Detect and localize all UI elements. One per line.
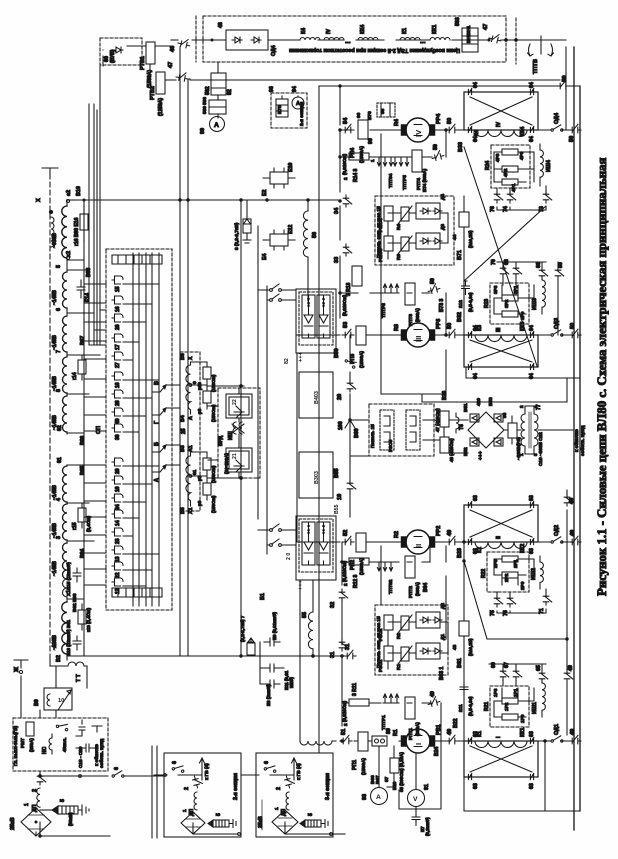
vertical feeder x180 (179, 47, 181, 656)
svg-text:IV: IV (326, 29, 332, 34)
РЗЮ4 (384, 206, 393, 221)
svg-text:61-1: 61-1 (306, 524, 311, 534)
svg-text:В51: В51 (463, 403, 468, 412)
arrester 5 (300, 820, 305, 827)
svg-text:64: 64 (529, 82, 535, 88)
svg-text:1: 1 (182, 809, 187, 812)
svg-text:34: 34 (334, 207, 340, 214)
voltmeter 91 (408, 790, 425, 807)
svg-text:К4: К4 (474, 130, 480, 136)
svg-text:47: 47 (483, 24, 489, 30)
winding 4-3 145В (63, 504, 68, 540)
wire R14 row (340, 156, 432, 158)
svg-text:16: 16 (115, 306, 121, 312)
svg-text:22: 22 (115, 572, 121, 578)
svg-text:ОД4: ОД4 (271, 45, 277, 56)
svg-text:8 (2,2-2,7кВ): 8 (2,2-2,7кВ) (234, 222, 239, 250)
resistor РП1 (358, 732, 368, 751)
panel wires (388, 213, 448, 259)
svg-text:(150Ом): (150Ом) (211, 465, 216, 483)
diode cell 62-1 (302, 295, 315, 338)
svg-text:+++: +++ (298, 579, 304, 590)
ammeter 93 (371, 788, 388, 805)
svg-text:52: 52 (343, 530, 349, 536)
svg-text:49: 49 (569, 498, 575, 504)
box В403 (299, 372, 333, 418)
winding ПРА upper (186, 365, 191, 410)
svg-text:В33: В33 (458, 142, 464, 152)
svg-text:В22: В22 (453, 718, 459, 728)
resistor р9 (203, 483, 211, 495)
terminal block 563 in top box (455, 17, 478, 52)
box 10 (ТРПШ) (34, 688, 72, 710)
svg-text:R23: R23 (484, 299, 490, 308)
svg-text:В52: В52 (463, 447, 468, 456)
svg-text:СП: СП (96, 426, 102, 434)
contact ОД2 (551, 537, 563, 543)
РПТ4 box (412, 150, 422, 172)
svg-text:Е4: Е4 (262, 254, 268, 260)
contact В56 below III (345, 356, 358, 369)
svg-text:собств. нужд: собств. нужд (579, 425, 585, 456)
component r13 (2,4Ом) (78, 610, 86, 624)
к ГВ arrow (200, 758, 205, 780)
winding x1-а1 ~638В (62, 602, 67, 654)
contact 34 (343, 195, 352, 207)
wire x545 to bottom edge (544, 741, 546, 811)
svg-text:~638В: ~638В (52, 233, 58, 248)
svg-text:2Р0: 2Р0 (520, 581, 525, 590)
ТПТР3 arrows (383, 284, 399, 293)
contact Г with arrow (152, 408, 166, 415)
diagonal equalizer B33 down-right (464, 147, 537, 366)
svg-text:В2: В2 (56, 655, 62, 662)
vertical x441 (440, 703, 442, 741)
svg-text:50: 50 (562, 75, 568, 82)
svg-text:РТВ2: РТВ2 (150, 86, 156, 100)
svg-text:32: 32 (330, 602, 336, 608)
svg-text:70: 70 (491, 259, 497, 265)
svg-text:20: 20 (115, 468, 121, 474)
R1 var resistor (401, 647, 409, 661)
svg-text:р10: р10 (197, 382, 202, 390)
wire МРТ right to sections (40, 775, 164, 777)
wire pantograph row (40, 822, 110, 836)
svg-text:С18 - С20: С18 - С20 (78, 746, 83, 768)
svg-text:В55: В55 (334, 468, 340, 478)
svg-text:Панель 15: Панель 15 (370, 424, 375, 448)
svg-text:R1: R1 (396, 664, 401, 670)
svg-text:563: 563 (455, 17, 461, 26)
antenna В60 106 (345, 414, 355, 432)
contact 47a (176, 71, 189, 82)
svg-text:II: II (414, 544, 423, 548)
svg-text:2: 2 (343, 723, 348, 726)
svg-text:R24: R24 (485, 161, 491, 170)
svg-text:53: 53 (343, 322, 349, 328)
svg-text:21: 21 (232, 453, 238, 459)
svg-text:50: 50 (433, 144, 439, 150)
secondary winding 55 (312, 580, 314, 612)
svg-text:(2,2-2,7кВ) 7: (2,2-2,7кВ) 7 (240, 615, 245, 642)
winding 01-4 145В (63, 466, 68, 502)
svg-text:РПТ4: РПТ4 (416, 178, 421, 190)
ammeter 99 (210, 117, 225, 132)
svg-text:43: 43 (452, 644, 457, 650)
wire motor III (297, 334, 569, 336)
svg-text:2-я секция: 2-я секция (233, 773, 239, 800)
dashed box БРД (218, 388, 260, 478)
component Е13 (12мкФ) (73, 636, 81, 650)
svg-text:III: III (414, 336, 423, 342)
svg-text:5: 5 (308, 813, 314, 816)
svg-text:96: 96 (356, 112, 361, 118)
component r16 В90 Е16 (80, 214, 88, 230)
svg-text:2: 2 (184, 787, 190, 790)
wire motor II (297, 541, 569, 543)
svg-text:R12 3: R12 3 (353, 574, 359, 588)
svg-text:(1500А): (1500А) (361, 758, 366, 775)
lower link box (387, 741, 441, 809)
svg-text:~145В: ~145В (52, 561, 58, 576)
svg-text:3 R11: 3 R11 (352, 683, 358, 696)
svg-text:63: 63 (529, 495, 535, 501)
coil Т6 (456, 413, 459, 433)
y656 bus contact 31a (344, 650, 356, 659)
svg-text:V: V (413, 796, 418, 803)
svg-text:IV: IV (496, 122, 502, 127)
svg-text:63: 63 (473, 783, 479, 789)
svg-text:ТПТ94: ТПТ94 (388, 173, 393, 188)
svg-text:Б5: Б5 (180, 507, 186, 514)
svg-text:66: 66 (536, 262, 542, 268)
РПТ3 box (405, 283, 415, 305)
coil group K4 in top box (300, 38, 320, 41)
svg-text:26: 26 (115, 324, 121, 330)
resistor R12 (349, 558, 369, 565)
wire motor I (332, 740, 569, 742)
svg-text:РР2: РР2 (436, 526, 442, 536)
svg-text:89: 89 (386, 728, 392, 734)
svg-text:ОД1: ОД1 (554, 724, 560, 735)
svg-text:(0,5-0,6с): (0,5-0,6с) (468, 292, 473, 312)
arrester 7 (2,2-2,7кВ) (240, 615, 255, 656)
svg-text:В71: В71 (457, 250, 463, 260)
coil group IV in top box (324, 38, 344, 41)
svg-text:3 R13: 3 R13 (346, 282, 352, 296)
wire from top box right to bus (501, 39, 566, 41)
svg-text:~145В: ~145В (52, 290, 58, 305)
svg-text:ТПТ92: ТПТ92 (388, 579, 393, 594)
coil ДП (286, 792, 289, 810)
tap 02 (67, 432, 84, 434)
svg-text:ИШ3: ИШ3 (532, 298, 538, 310)
svg-text:211: 211 (458, 704, 463, 712)
tap x1 (67, 598, 84, 600)
R2 var resistor (401, 616, 409, 630)
contact А with arrow (152, 465, 166, 472)
terminal Ж (14, 660, 28, 718)
contact 50 top right (557, 80, 569, 89)
svg-text:РЗО2: РЗО2 (378, 628, 383, 641)
resistor РП3 (356, 326, 366, 345)
svg-text:собств. нужд: собств. нужд (98, 739, 104, 768)
svg-text:6: 6 (172, 761, 178, 764)
dashed box: цепи возбуждения ТЭД 2-й секции (203, 16, 506, 62)
stepped return line III-IV (381, 378, 567, 402)
svg-text:2: 2 (276, 787, 282, 790)
terminal block 560 563 (209, 100, 226, 114)
svg-text:68: 68 (504, 259, 510, 265)
vertical feed x340 from bus (339, 86, 341, 335)
contact 2 (284, 775, 295, 789)
svg-text:R4: R4 (394, 119, 400, 126)
svg-text:Х1: Х1 (188, 508, 194, 514)
svg-text:В23: В23 (457, 548, 463, 558)
bottom contact row (112, 588, 162, 597)
svg-text:64: 64 (529, 136, 535, 142)
box В303 (299, 452, 333, 498)
dashed HV line (49, 174, 51, 660)
svg-text:30: 30 (115, 434, 121, 440)
svg-text:63: 63 (473, 495, 479, 501)
svg-text:95: 95 (380, 108, 385, 114)
svg-text:(0,5-0,6с): (0,5-0,6с) (468, 696, 473, 716)
capacitor Е7 (412, 817, 420, 826)
vertical feeder x258 (257, 226, 259, 519)
svg-text:I: I (496, 736, 502, 738)
dashed box ВУВ 60 (100, 38, 142, 65)
contact pair К upper (258, 284, 296, 301)
contact 46 left of top box (177, 37, 191, 48)
box 88 (Р3) (508, 423, 517, 438)
diode cell 61-1 (302, 522, 315, 565)
resistor R14 (0,918Ом) (349, 153, 369, 160)
wire top bus y86 (319, 85, 580, 87)
diode block V1 in top box (226, 30, 268, 50)
svg-text:РР4: РР4 (436, 114, 442, 124)
pantograph (181, 812, 205, 834)
svg-text:3-я секция: 3-я секция (325, 773, 331, 800)
capacitor box Е12 (262, 225, 295, 260)
svg-text:25: 25 (181, 428, 187, 434)
resistor РП4 (358, 120, 368, 139)
svg-text:2Р2: 2Р2 (504, 573, 509, 582)
svg-text:Е2: Е2 (262, 190, 268, 196)
vertical from II wire (429, 542, 431, 562)
tap 6 (67, 312, 94, 314)
svg-text:3Р1: 3Р1 (513, 285, 518, 294)
svg-text:ИШ1: ИШ1 (532, 702, 538, 714)
svg-text:3Р2: 3Р2 (504, 299, 509, 308)
svg-text:01: 01 (192, 469, 197, 475)
svg-text:49: 49 (447, 530, 453, 536)
svg-text:4Р0: 4Р0 (519, 151, 524, 160)
svg-text:К1: К1 (402, 28, 408, 34)
svg-text:40: 40 (115, 418, 121, 424)
taps upper ПРА (191, 362, 208, 414)
svg-text:5: 5 (60, 799, 66, 802)
svg-text:28: 28 (115, 400, 121, 406)
svg-text:63: 63 (529, 731, 535, 737)
svg-text:Е3 (1мкФ): Е3 (1мкФ) (266, 684, 271, 706)
component r15 (2,4Ом) (78, 508, 86, 522)
svg-text:к ГВ (4): к ГВ (4) (296, 763, 301, 780)
svg-text:Д1: Д1 (440, 634, 445, 640)
svg-text:РЗО1: РЗО1 (378, 659, 383, 672)
contact 49 on x567 line (564, 494, 573, 506)
svg-text:25кВ: 25кВ (258, 816, 264, 828)
resistor р7 (203, 458, 211, 470)
svg-text:54: 54 (343, 117, 349, 124)
pantograph (272, 810, 298, 834)
coil ИШ3 (542, 280, 545, 307)
component Е14 capacitor (77, 280, 85, 298)
top tie line of bank I (489, 663, 546, 665)
winding IV in X-box (475, 130, 527, 137)
block 562 (ВН contacts) (205, 73, 233, 95)
vertical x350 down from III wire (349, 335, 351, 420)
vertical feeder x188 (187, 80, 189, 656)
svg-text:К1: К1 (477, 731, 483, 737)
svg-text:(150Ом): (150Ом) (211, 404, 216, 422)
В71 vertical line (463, 196, 465, 335)
svg-text:67: 67 (504, 662, 510, 668)
svg-text:r16 В90 Е16: r16 В90 Е16 (74, 217, 80, 246)
svg-text:IV: IV (414, 129, 423, 137)
svg-text:93: 93 (362, 794, 368, 800)
contact 20 (347, 380, 356, 392)
svg-text:В61: В61 (457, 658, 463, 668)
svg-text:НС: НС (42, 746, 48, 754)
svg-text:Б6: Б6 (180, 353, 186, 360)
thyristor box 22 (226, 394, 252, 418)
svg-text:КК1: КК1 (432, 25, 438, 34)
arrester 8 (2,2-2,7кВ) (234, 200, 251, 250)
coil ДП (194, 792, 197, 810)
coil group KK1 in top box (430, 38, 450, 41)
tap 8 (67, 393, 89, 395)
svg-text:КК4: КК4 (360, 25, 366, 34)
svg-text:r15: r15 (72, 522, 78, 530)
winding 6-7 145В (63, 316, 68, 352)
contact 50 on right of bank III (555, 267, 564, 279)
contact 50 (446, 329, 458, 338)
svg-text:А: А (188, 416, 194, 420)
svg-text:(56кВ): (56кВ) (68, 812, 73, 826)
smoothing reactor coil on I wire (300, 741, 332, 745)
svg-text:(2±0,1Б): (2±0,1Б) (468, 638, 473, 656)
motor IV (402, 118, 435, 142)
contact 52 (342, 536, 354, 545)
R11 resistor row (349, 699, 369, 706)
svg-text:I: I (414, 743, 423, 745)
РЗЮ1 (384, 646, 393, 661)
svg-text:48: 48 (218, 22, 224, 28)
contact 50b (427, 283, 441, 294)
svg-text:2: 2 (343, 583, 348, 586)
dashed divider x196 (195, 16, 197, 62)
svg-text:(2,4Ом): (2,4Ом) (86, 515, 91, 532)
svg-text:А: А (52, 644, 58, 648)
svg-text:РТВ1: РТВ1 (140, 56, 146, 70)
svg-text:19: 19 (337, 494, 343, 500)
svg-text:~145В: ~145В (52, 485, 58, 500)
svg-text:(1500А): (1500А) (359, 558, 364, 575)
X-box I bottom link (464, 777, 538, 811)
diode cell 61-2 (317, 522, 330, 565)
arrester 5 (196, 826, 198, 828)
R3 var resistor (401, 237, 409, 251)
svg-text:КК1: КК1 (520, 728, 526, 737)
pantograph main (10, 803, 51, 836)
contact ОД3 (551, 330, 563, 336)
svg-text:20: 20 (337, 394, 343, 400)
svg-text:47: 47 (168, 62, 174, 68)
wire ВУВ to РТВ1 to contact 46 (127, 46, 171, 70)
EKG contacts column A (upper half) (112, 276, 123, 440)
vertical feeder x241 (240, 200, 242, 656)
diode ВУВ (113, 47, 123, 53)
РЗЮ3 (384, 236, 393, 251)
coil group KK4 in top box (358, 38, 378, 41)
coil ДП main (37, 788, 40, 807)
wires ЭКГ arrows to ПРА (166, 385, 180, 465)
TPT94 arrows (377, 157, 393, 166)
coil on HV line (51, 217, 54, 247)
svg-text:(150Ом): (150Ом) (211, 374, 216, 392)
arrester 5 main (40, 799, 89, 826)
svg-text:Б1: Б1 (260, 593, 266, 600)
svg-text:А1: А1 (188, 445, 194, 452)
capacitor 211 (460, 684, 468, 695)
svg-text:87: 87 (384, 776, 389, 782)
resistor bank ИШ3 above wire (484, 283, 534, 324)
wires ПРА to БРД feeder (207, 386, 244, 478)
svg-text:В9: В9 (34, 699, 40, 706)
svg-text:В55: В55 (334, 504, 340, 514)
component Е15 (12мкФ) (73, 568, 81, 582)
resistor РТВ1 (146, 42, 155, 64)
resistor bank ИШ2 below wire (481, 552, 534, 592)
svg-text:33: 33 (334, 257, 340, 263)
svg-text:62-2: 62-2 (321, 297, 326, 307)
shunt box 89 (372, 736, 387, 746)
svg-text:75: 75 (490, 610, 496, 616)
contact 33 (343, 244, 352, 256)
contact 53 (342, 329, 354, 338)
return frame x381 x446 motors III-IV (381, 134, 446, 394)
capacitor Е11 (0,01мкФ) (260, 664, 294, 690)
svg-text:ТПТР5: ТПТР5 (402, 175, 407, 190)
capacitor 212 (462, 281, 470, 295)
aux transformer windings (516, 404, 543, 466)
svg-text:2: 2 (343, 177, 348, 180)
resistor 85 (390, 758, 399, 773)
svg-text:96: 96 (269, 86, 275, 92)
rectifier block 62 dashed (299, 292, 333, 345)
tap 4 (67, 502, 89, 504)
resistor 44 on В71 (459, 212, 469, 227)
contact 2 (192, 775, 203, 789)
svg-text:85 (300Ом) (0,15А): 85 (300Ом) (0,15А) (399, 752, 404, 792)
svg-text:Д2: Д2 (440, 603, 445, 609)
svg-text:64: 64 (529, 325, 535, 331)
svg-text:ОД2: ОД2 (554, 525, 560, 536)
svg-text:24: 24 (115, 504, 121, 510)
svg-text:69: 69 (491, 662, 497, 668)
svg-text:64: 64 (473, 82, 479, 88)
